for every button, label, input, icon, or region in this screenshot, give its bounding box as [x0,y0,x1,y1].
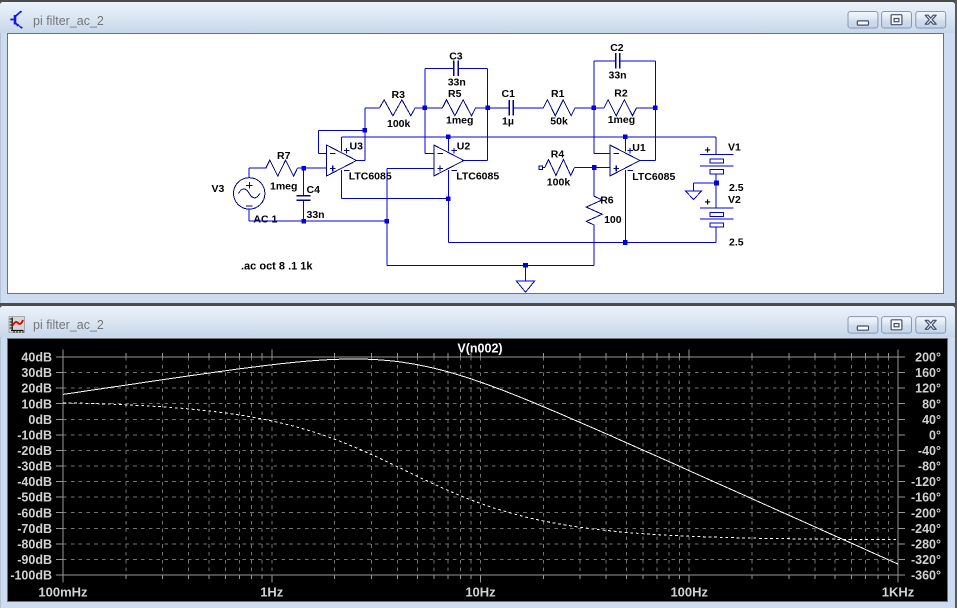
wire U3 feedback to -in [319,130,365,153]
battery V1 [700,155,733,183]
svg-text:120°: 120° [915,382,941,396]
svg-text:R3: R3 [392,89,406,101]
ground symbol 2 [685,191,701,200]
svg-text:0°: 0° [929,428,941,442]
svg-text:-70dB: -70dB [17,522,52,536]
op-amp U1 [610,145,640,176]
wire U2 V+ stub [447,137,449,152]
node U1 V- [623,240,628,245]
wire node A up to C3 [425,68,454,108]
window 2 buttons [848,317,878,334]
node R7/C4/U3+ [301,166,306,171]
svg-text:10Hz: 10Hz [465,585,496,600]
svg-text:V(n002): V(n002) [457,342,502,356]
wire V+ rail to V1 [715,137,717,155]
resistor R3 [380,100,416,116]
svg-text:R5: R5 [448,88,462,100]
svg-text:30dB: 30dB [21,366,52,380]
resistor R4 [542,160,574,176]
svg-text:1Hz: 1Hz [260,585,284,600]
node U1 V+ [623,135,628,140]
wire mid to ground [694,183,717,191]
wire R4 to node E [575,167,610,169]
window: schematic "pi filter_ac_2" [0,2,955,303]
window: waveform viewer "pi filter_ac_2" [0,306,955,608]
wire U3 out up [357,108,365,161]
svg-text:R7: R7 [277,150,291,162]
wire V3 bottom to ground rail [249,209,304,221]
svg-text:C1: C1 [502,88,516,100]
wire U2 V- stub [447,170,449,199]
svg-text:100mHz: 100mHz [38,585,88,600]
svg-text:R4: R4 [551,149,565,161]
wire U1 out up to node F [640,108,656,161]
wire gnd rail down and right [387,221,594,265]
svg-text:100: 100 [604,214,622,226]
phase curve V(n002) [63,403,898,540]
svg-text:40dB: 40dB [21,351,52,365]
window 1 buttons [848,12,878,29]
svg-text:100k: 100k [387,118,411,130]
magnitude curve V(n002) [63,359,898,564]
wire node D up to C2 [594,61,616,108]
svg-text:-100dB: -100dB [10,569,52,583]
svg-text:.ac oct 8 .1 1k: .ac oct 8 .1 1k [241,261,313,273]
svg-text:1µ: 1µ [502,116,514,128]
op-amp U2 [434,145,464,176]
svg-text:V2: V2 [728,194,741,206]
node B [485,106,490,111]
wire U3 V+ stub [341,137,343,152]
V+ rail [342,136,717,138]
voltage source V3 [234,178,265,209]
wire R3 to node A [415,107,425,109]
svg-text:LTC6085: LTC6085 [456,171,499,183]
wire U1 V+ stub [624,137,626,152]
svg-text:-320°: -320° [911,553,941,567]
x axis labels [38,585,914,600]
svg-text:V3: V3 [212,183,225,195]
right axis labels [911,351,941,583]
svg-text:-10dB: -10dB [17,428,52,442]
svg-text:2.5: 2.5 [729,182,744,194]
svg-text:C2: C2 [610,42,624,54]
svg-text:R2: R2 [614,88,628,100]
svg-text:-160°: -160° [911,491,941,505]
svg-text:1KHz: 1KHz [882,585,915,600]
svg-text:2.5: 2.5 [729,237,744,249]
svg-text:1meg: 1meg [270,181,297,193]
wire node D to U1 -in [594,108,610,154]
svg-text:-20dB: -20dB [17,444,52,458]
unconnected pin R4 [539,166,543,170]
svg-text:R1: R1 [551,88,565,100]
svg-text:80°: 80° [922,397,941,411]
svg-text:50k: 50k [550,116,568,128]
svg-text:U1: U1 [632,142,646,154]
node U2 V+ [446,135,451,140]
svg-text:LTC6085: LTC6085 [349,171,392,183]
plot axes and ticks [56,350,905,583]
wire ground rail to junction [304,220,387,222]
schematic window icon [10,11,22,29]
wire R1 to node D [575,107,594,109]
svg-text:1meg: 1meg [608,114,635,126]
svg-text:-90dB: -90dB [17,553,52,567]
svg-text:40°: 40° [922,413,941,427]
wire U3 out to R3 [365,107,380,109]
svg-text:-60dB: -60dB [17,506,52,520]
svg-text:-80dB: -80dB [17,537,52,551]
wire U2 + input [387,169,434,222]
wire node A to U2 -in [425,108,434,154]
svg-text:1meg: 1meg [446,115,473,127]
svg-text:AC 1: AC 1 [253,214,277,226]
node U2+ gnd rail [385,219,390,224]
node V- join [446,196,451,201]
wire U2 out up to node B [464,108,488,161]
svg-text:-80°: -80° [918,460,941,474]
waveform window icon [9,317,25,333]
svg-text:100k: 100k [547,177,571,189]
svg-text:-200°: -200° [911,506,941,520]
capacitor C4 [297,168,311,221]
svg-text:0dB: 0dB [28,413,52,427]
node V1/V2 mid [714,181,719,186]
svg-text:-120°: -120° [911,475,941,489]
battery V2 [700,183,733,243]
capacitor C2 [615,53,617,69]
wire C2 to node F [620,61,656,108]
resistor R2 [594,100,656,116]
svg-text:+: + [705,145,711,157]
wire U3 V- stub [342,170,449,199]
svg-text:V1: V1 [728,142,741,154]
svg-text:-40dB: -40dB [17,475,52,489]
capacitor C1 [488,100,544,116]
svg-text:LTC6085: LTC6085 [632,171,675,183]
node D [592,106,597,111]
svg-text:10dB: 10dB [21,397,52,411]
svg-text:U2: U2 [457,141,471,153]
svg-text:20dB: 20dB [21,382,52,396]
svg-text:R6: R6 [600,195,614,207]
svg-text:-280°: -280° [911,537,941,551]
svg-text:-240°: -240° [911,522,941,536]
resistor R5 [425,100,488,116]
op-amp U3 [327,145,357,176]
svg-text:C4: C4 [307,184,321,196]
svg-text:200°: 200° [915,351,941,365]
wire V3 top to R7 [249,168,266,178]
svg-text:+: + [705,197,711,209]
svg-text:-360°: -360° [911,569,941,583]
wire U1 V- stub [624,170,626,243]
capacitor C3 [453,61,455,77]
node E [592,165,597,170]
svg-text:33n: 33n [448,77,466,89]
svg-text:C3: C3 [449,51,463,63]
plot grid [63,357,898,575]
resistor R1 [543,100,575,116]
wire R7 to node in [298,167,327,169]
ground symbol [516,281,535,292]
ground stub [525,265,527,281]
svg-text:33n: 33n [609,70,627,82]
svg-text:160°: 160° [915,366,941,380]
node A [423,106,428,111]
svg-text:-30dB: -30dB [17,460,52,474]
svg-text:U3: U3 [350,141,364,153]
svg-text:33n: 33n [307,209,325,221]
node U3 feedback [363,128,368,133]
resistor R6 [586,168,602,266]
wire V- join down to rail [448,199,716,243]
node F [653,106,658,111]
svg-text:-50dB: -50dB [17,491,52,505]
node C4 gnd rail [301,219,306,224]
left axis labels [10,351,52,583]
wire C3 to node B [458,68,487,108]
svg-text:-40°: -40° [918,444,941,458]
svg-text:100Hz: 100Hz [670,585,708,600]
node gnd symbol [523,263,528,268]
resistor R7 [266,160,298,176]
